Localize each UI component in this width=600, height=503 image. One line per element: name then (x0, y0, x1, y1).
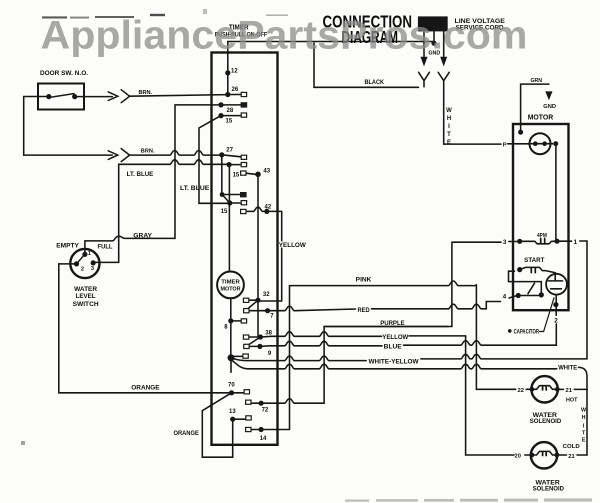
wire: cold solenoid 21 lead (557, 454, 587, 456)
svg-text:MOTOR: MOTOR (221, 286, 241, 292)
door switch box (38, 84, 84, 110)
node: service cord white lead connector chevron (438, 72, 449, 80)
node: contact pin 13 (246, 416, 251, 420)
hot water solenoid circle (531, 376, 557, 402)
wire: timer pin 32 contact stub (249, 299, 258, 301)
wire: service cord white lead stub (443, 32, 445, 57)
wire: timer pin 14 contact stub (251, 429, 261, 431)
node: service cord white arrow (440, 57, 447, 67)
wire: service cord black lead stub (423, 32, 425, 57)
motor circle (530, 133, 551, 154)
node: contact pin 27b (241, 193, 246, 197)
wire: RED jog up into motor pin 4 (486, 302, 500, 309)
wire: GND pigtail from service cord (433, 32, 435, 42)
svg-text:43: 43 (263, 168, 270, 174)
svg-text:32: 32 (263, 292, 270, 298)
node: timer pin 12 (225, 70, 230, 75)
node: motor ground arrow (545, 91, 552, 100)
node: water level switch blade (77, 255, 84, 264)
node: start switch contact (517, 267, 522, 272)
svg-text:SWITCH: SWITCH (73, 302, 99, 308)
node: timer pin 14 (259, 427, 264, 432)
svg-text:H: H (447, 116, 451, 122)
wire: start switch linkage (515, 282, 542, 295)
node: timer pin 70 (229, 390, 234, 395)
wire: timer pin 15 blade drop to lower 15 (199, 116, 230, 204)
svg-text:CAPACITOR: CAPACITOR (514, 328, 540, 335)
svg-text:3: 3 (503, 239, 507, 246)
svg-text:1: 1 (574, 239, 578, 246)
wire: RED row (timer pin 7 to motor pin 4) (268, 306, 356, 311)
node: timer pin 7 (265, 308, 270, 313)
wire: timer pin 26 row stub (228, 94, 241, 96)
wire: ORANGE loop pin 70 to pin 13 (202, 393, 232, 457)
node: BRN lower connector arrow (108, 151, 118, 160)
svg-text:13: 13 (229, 409, 236, 415)
node: service cord black arrow (421, 57, 428, 67)
wire: motor brush row (530, 143, 553, 145)
door switch internals (49, 94, 85, 264)
wire: timer pin 27b contact stub (222, 194, 240, 196)
wire: timer pin 8 contact stub (231, 320, 241, 322)
svg-text:BRN.: BRN. (141, 148, 155, 154)
node: contact pin 15c (241, 201, 246, 205)
node: contact pin 32 (243, 298, 248, 302)
node: motor pin 3 (517, 239, 522, 244)
svg-text:BRN.: BRN. (139, 90, 153, 96)
svg-text:21: 21 (566, 388, 573, 394)
timer box (212, 53, 278, 445)
svg-text:42: 42 (265, 204, 272, 210)
svg-text:LEVEL: LEVEL (76, 294, 96, 300)
node: timer pin 8 (228, 318, 233, 323)
node: motor circle output (553, 141, 558, 146)
node: timer pin 26 (225, 92, 230, 97)
node: contact pin 15a (241, 113, 246, 117)
svg-text:12: 12 (231, 69, 238, 75)
node: timer pin 27b (220, 192, 225, 197)
coil: cold solenoid winding (532, 451, 557, 455)
svg-text:PURPLE: PURPLE (380, 320, 405, 327)
wire: BLACK line-voltage lead down and across (314, 43, 419, 87)
node: water level terminal 1 (82, 252, 87, 257)
wire: timer pin 27 vertical (221, 155, 223, 195)
svg-text:E: E (582, 438, 586, 444)
node: contact pin 26 (241, 92, 246, 96)
node: contact pin 9 (244, 344, 249, 348)
svg-text:FULL: FULL (98, 245, 113, 251)
svg-text:15: 15 (233, 172, 240, 178)
node: contact junction row (243, 354, 248, 358)
node: timer pin 32 blade (246, 300, 258, 310)
wire: GRN motor ground wire (521, 84, 549, 132)
wire: ground bus from timer pin 12 to service cord GND (228, 41, 434, 43)
svg-text:28: 28 (227, 108, 234, 114)
wire: WHITE row (timer motor junction to solenoid 21 node) (233, 361, 557, 369)
svg-text:38: 38 (265, 331, 272, 337)
svg-text:WHITE-YELLOW: WHITE-YELLOW (369, 358, 419, 365)
node: contact pin 27 (241, 155, 246, 159)
svg-text:RED: RED (358, 307, 371, 314)
node: BRN top connector chevron (121, 90, 129, 103)
wire: cold solenoid feed riser (YELLOW) (466, 336, 514, 455)
svg-text:SOLENOID: SOLENOID (533, 486, 565, 493)
node: door switch left contact (46, 94, 51, 99)
wire: motor pin 1 lead to right-side neutral riser (557, 240, 572, 242)
wire: BRN top run, door switch to timer pin 26 (24, 95, 228, 97)
node: cold solenoid left terminal (530, 453, 535, 458)
wire: motor circle to 4PM winding vertical (555, 146, 557, 241)
component outlines (38, 53, 569, 469)
timer stationary contacts (241, 92, 252, 431)
wire: water level FULL terminal lead (96, 261, 119, 263)
svg-text:ORANGE: ORANGE (131, 386, 159, 392)
svg-text:E: E (447, 140, 451, 146)
node: timer pin 15b (227, 162, 232, 167)
wire: timer pin 43/32/38 vertical bus (257, 174, 259, 337)
node: water level terminal 3 (91, 260, 96, 265)
svg-text:4PM: 4PM (537, 233, 547, 239)
wire: LT. BLUE run, water level FULL to timer pin 15 (119, 160, 229, 263)
svg-text:YELLOW: YELLOW (279, 243, 306, 249)
water level switch circle (70, 249, 99, 278)
node: motor brush right (542, 141, 547, 146)
wire: timer pin 38 contact stub (249, 336, 261, 338)
wire: timer pin 9 contact stub (249, 345, 260, 347)
svg-text:26: 26 (232, 87, 239, 93)
svg-text:AppliancePartsPros.com: AppliancePartsPros.com (41, 13, 528, 57)
svg-text:YELLOW: YELLOW (382, 334, 408, 341)
node: timer pin 38 blade (246, 337, 260, 346)
svg-text:BLACK: BLACK (365, 80, 385, 86)
label: WHITE stacked solenoid (581, 408, 587, 444)
svg-text:GND: GND (543, 104, 556, 110)
node: contact pin 28 (241, 103, 246, 107)
wire: timer pin 42 row (246, 207, 264, 211)
svg-text:SOLENOID: SOLENOID (530, 418, 562, 425)
wire: timer pin 43 contact stub (246, 173, 256, 174)
wire: PINK row (pin 14 to hot solenoid riser) (290, 281, 477, 286)
svg-text:3: 3 (91, 266, 94, 272)
svg-text:ORANGE: ORANGE (174, 431, 199, 437)
svg-text:W: W (581, 408, 587, 414)
node: start switch blade (528, 283, 535, 294)
timer motor circle (217, 272, 244, 299)
wire: timer pin 13 contact stub (233, 418, 246, 420)
wire: 4PM winding row (520, 241, 557, 244)
node: timer motor junction (228, 354, 235, 361)
coil: hot solenoid winding (532, 386, 557, 390)
node: contact pin 70 (244, 390, 249, 394)
wire: GRAY run, water level common to timer pin 28 (85, 105, 219, 253)
wire: PURPLE row (timer pin 72 to motor pin 3) (261, 327, 448, 404)
node: cold solenoid right terminal (555, 453, 560, 458)
node: door switch blade (49, 94, 75, 98)
svg-text:20: 20 (515, 454, 521, 460)
wire: BLUE row (timer pin 9 to motor pin 2) (260, 341, 382, 346)
svg-text:BLUE: BLUE (384, 343, 402, 350)
node: motor ground terminal (518, 130, 523, 135)
svg-text:1: 1 (88, 251, 91, 257)
wire: timer 15b/15c vertical to timer motor (228, 165, 230, 272)
node: 4PM winding right (554, 239, 559, 244)
capacitor circle (546, 274, 567, 295)
node: service cord GND dot (431, 41, 436, 46)
wire: timer pin 15a row stub (221, 115, 241, 117)
svg-text:MOTOR: MOTOR (528, 114, 554, 121)
svg-text:WATER: WATER (74, 287, 98, 293)
wire: timer pin 7 contact stub (249, 310, 268, 312)
wire: right neutral vertical (pin1 / WHITE / 21 / 21) (586, 241, 588, 359)
node: timer pin 15a (218, 113, 223, 118)
wire: BRN lower run, door switch to timer pin 27 (24, 97, 113, 156)
wire: neutral riser lower segment (586, 389, 588, 455)
wire: timer motor to pin 8 and junction (230, 299, 232, 356)
svg-text:COLD: COLD (563, 444, 580, 450)
svg-text:LT. BLUE: LT. BLUE (180, 186, 209, 192)
node: contact pin 15b (241, 163, 246, 167)
node: water level terminal 2 (74, 261, 79, 266)
node: timer pin 42 (264, 209, 269, 214)
component: service cord block (418, 16, 448, 31)
node: motor pin 4 (516, 293, 521, 298)
wire: ORANGE run, water level EMPTY to timer pin 70 (59, 264, 229, 393)
wire: timer pin 72 contact stub (251, 402, 261, 404)
motor box (513, 124, 569, 310)
node: contact pin 43 (241, 171, 246, 175)
svg-text:2: 2 (81, 267, 84, 273)
wire: WHITE-YELLOW row (timer motor junction to neutral riser) (233, 356, 366, 361)
wire: timer pin 70 contact stub (232, 392, 244, 394)
node: motor pin 2 (553, 302, 558, 307)
wire: timer pin 28 row (221, 104, 241, 106)
node: timer pin 72 (259, 401, 264, 406)
node: timer motor lower junction (230, 361, 232, 372)
wire: timer pin 15c contact stub (230, 202, 241, 204)
svg-text:DOOR SW. N.O.: DOOR SW. N.O. (40, 70, 88, 77)
svg-text:22: 22 (518, 388, 524, 394)
node: contact pin 14 (246, 427, 251, 431)
wire: capacitor lead down to pin 2 (555, 295, 557, 343)
node: contact pin 42 (241, 209, 246, 213)
svg-text:2: 2 (554, 318, 558, 325)
svg-text:15: 15 (221, 209, 228, 215)
svg-text:P: P (503, 142, 507, 148)
svg-text:4: 4 (503, 293, 507, 300)
bottom edge print-through smudge (345, 498, 592, 501)
label: WHITE stacked service lead (446, 108, 452, 146)
svg-text:72: 72 (262, 407, 269, 413)
svg-text:T: T (447, 132, 451, 138)
svg-text:14: 14 (260, 436, 267, 442)
wire: timer pin 27 lower diagonal (222, 195, 230, 204)
cold water solenoid circle (531, 442, 557, 468)
node: timer pin 15c (227, 200, 232, 205)
node: contact pin 8 (241, 319, 246, 323)
svg-text:W: W (446, 108, 452, 114)
svg-text:21: 21 (568, 454, 575, 460)
node: timer pin 38 (258, 334, 263, 339)
node: hot solenoid right terminal (555, 387, 560, 392)
svg-text:EMPTY: EMPTY (56, 243, 79, 249)
wire: WHITE lead down to motor terminal P (444, 81, 501, 144)
node: hot solenoid left terminal (530, 387, 535, 392)
node: start switch run contact (539, 292, 544, 297)
node: BRN lower connector chevron (121, 149, 129, 162)
svg-text:LT. BLUE: LT. BLUE (127, 172, 154, 178)
wire: timer junction contact stub (234, 355, 243, 357)
node: capacitor label bullet (508, 329, 512, 333)
node: start switch actuator bracket (509, 271, 515, 281)
motor internals (530, 144, 558, 457)
svg-text:START: START (524, 257, 545, 264)
svg-text:70: 70 (228, 383, 235, 389)
node: service cord black lead connector chevron (419, 72, 430, 87)
wire: START switch coil row (520, 267, 556, 272)
wire: hot solenoid 21 lead (557, 388, 587, 390)
node: timer pin 32 (255, 298, 260, 303)
node: motor brush left (533, 141, 538, 146)
node: timer pin 28 (218, 102, 223, 107)
svg-text:TIMER: TIMER (221, 279, 240, 285)
wire: PINK riser from timer pin 14 (261, 286, 289, 430)
wire: timer pin 27 contact stub (222, 155, 241, 157)
node: BRN top connector arrow (108, 92, 118, 101)
node: contact pin 38 (243, 335, 248, 339)
node: timer pin 27 (219, 152, 224, 157)
node: timer pin 43 (255, 172, 261, 178)
wire: timer pin 15b contact stub (229, 164, 241, 166)
wire: timer pin 12 vertical drop (227, 42, 229, 95)
svg-text:HOT: HOT (566, 398, 578, 404)
node: door switch right contact (72, 94, 77, 99)
svg-text:H: H (582, 415, 586, 421)
svg-text:15: 15 (226, 119, 233, 125)
svg-text:WHITE: WHITE (558, 365, 577, 371)
node: timer pin 9 (257, 344, 262, 349)
svg-text:GRAY: GRAY (133, 233, 152, 239)
wire: hot solenoid feed riser (PINK) (476, 285, 515, 390)
node: timer pin 13 (230, 417, 235, 422)
capacitor C internals (548, 274, 562, 288)
wire: capacitor label pointer (540, 298, 554, 332)
wire: motor pin 3 lead (from PURPLE riser) (452, 241, 501, 243)
node: contact pin 7 (244, 309, 249, 313)
scan specks at top edge (21, 9, 288, 445)
wire: timer pin 42 loop to pin 32 (261, 211, 282, 301)
svg-text:PINK: PINK (356, 277, 372, 284)
svg-text:27: 27 (226, 148, 233, 154)
wire: motor pin 4 row (509, 296, 541, 299)
svg-text:GRN: GRN (531, 78, 543, 84)
node: contact pin 72 (246, 400, 251, 404)
wire: YELLOW row (timer pin 38 to cold solenoid riser) (260, 332, 381, 337)
